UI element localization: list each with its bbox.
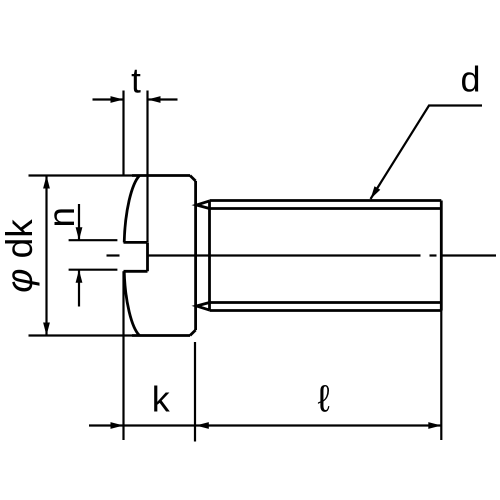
slot notch <box>124 242 148 271</box>
dk arrow up <box>43 176 50 189</box>
centerline long segment <box>148 254 421 256</box>
thread boundary line <box>208 201 211 311</box>
head bottom-right chamfer <box>190 330 196 336</box>
dk dimension line <box>45 176 47 336</box>
n extension line bottom <box>69 269 118 271</box>
head top-right chamfer <box>190 176 196 182</box>
n arrow down <box>76 227 83 240</box>
svg-text:ℓ: ℓ <box>318 379 330 421</box>
l arrow right <box>428 422 441 429</box>
t dimension line right <box>148 98 178 100</box>
d leader arrow <box>371 186 381 199</box>
head right edge <box>194 181 197 330</box>
d leader line <box>371 106 483 200</box>
shank end face <box>440 201 443 311</box>
t extension line right <box>146 91 148 243</box>
svg-text:k: k <box>152 379 171 420</box>
t arrow left <box>111 96 124 103</box>
svg-text:t: t <box>131 62 141 101</box>
head top edge with dk extension line <box>29 174 133 176</box>
dk arrow down <box>43 323 50 336</box>
shank crest line top <box>210 199 442 202</box>
bottom dimension line <box>89 424 441 426</box>
centerline dash left <box>107 254 120 256</box>
centerline dot <box>430 254 437 256</box>
k extension line right <box>194 342 196 442</box>
k arrow left <box>111 422 124 429</box>
k extension line left <box>122 271 124 440</box>
l extension line right <box>440 311 442 441</box>
n dimension leg bottom <box>78 270 80 307</box>
thread runout bottom <box>197 303 210 311</box>
n dimension leg top <box>78 204 80 240</box>
head top-left slot curve <box>124 176 139 243</box>
n extension line top <box>69 239 118 241</box>
t dimension line left <box>93 98 124 100</box>
n arrow up <box>76 270 83 283</box>
shank root line bottom <box>210 301 442 304</box>
centerline tail segment <box>442 254 496 256</box>
svg-text:d: d <box>460 59 480 100</box>
t arrow right <box>148 96 161 103</box>
svg-text:n: n <box>41 207 82 228</box>
head bottom edge with dk extension line <box>29 334 133 336</box>
head bottom-left slot curve <box>124 271 139 335</box>
shank crest line bottom <box>210 309 442 312</box>
svg-text:φ dk: φ dk <box>0 219 40 293</box>
thread runout top <box>197 201 210 209</box>
k arrow right / l arrow left <box>196 422 209 429</box>
t extension line left <box>122 91 124 176</box>
shank root line top <box>210 207 442 210</box>
